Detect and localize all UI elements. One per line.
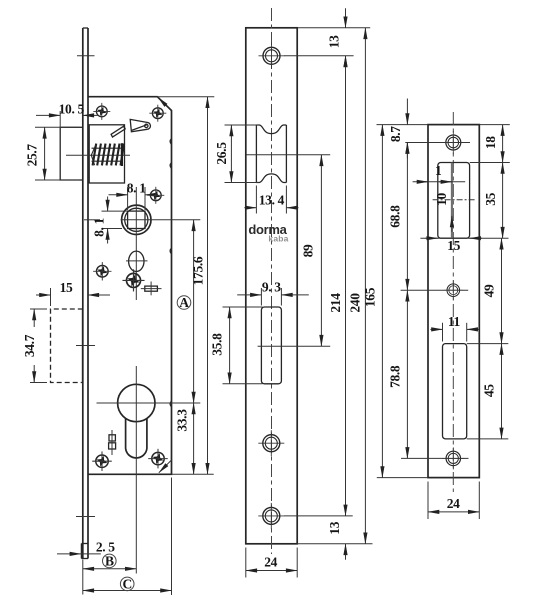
- dim 89: [301, 155, 322, 346]
- svg-text:24: 24: [264, 555, 277, 570]
- dim 11: [430, 314, 478, 341]
- dim 10.5: [36, 102, 98, 131]
- screw hole H2: [258, 430, 284, 456]
- svg-text:175.6: 175.6: [190, 256, 205, 285]
- svg-text:35.8: 35.8: [210, 333, 225, 356]
- svg-text:89: 89: [301, 244, 316, 257]
- latch opening box: [438, 163, 470, 239]
- centre tick marks on faceplate: [76, 56, 95, 517]
- screw S4: [93, 262, 111, 280]
- dim 18: [483, 125, 503, 163]
- bottom edge extension: [172, 473, 214, 475]
- dim 35.8: [210, 307, 263, 384]
- dim 240: [347, 28, 365, 544]
- dim 175.6: [190, 97, 207, 475]
- svg-text:kaba: kaba: [268, 234, 288, 244]
- svg-text:8. 1: 8. 1: [127, 181, 146, 196]
- deadbolt opening box: [443, 344, 467, 439]
- latch bolt wedge: [130, 119, 150, 131]
- screw hole H1: [259, 43, 354, 69]
- dim 2.5: [57, 539, 115, 554]
- dim 33.3: [174, 403, 193, 474]
- screw hole K2: [401, 281, 469, 300]
- dim B (backset): [83, 553, 137, 594]
- dim 8.1 horizontal: [109, 181, 159, 210]
- screw S2: [149, 105, 166, 122]
- dim 165: [362, 125, 428, 478]
- svg-text:26.5: 26.5: [214, 142, 229, 165]
- cylinder slot: [261, 307, 281, 384]
- screw S5: [122, 269, 144, 291]
- spring case: [89, 125, 124, 183]
- dim 24 (strike): [428, 482, 479, 520]
- dim 13 bottom: [327, 521, 346, 559]
- svg-text:C: C: [122, 576, 131, 591]
- screw S1: [93, 103, 110, 120]
- svg-text:165: 165: [362, 287, 377, 307]
- svg-text:18: 18: [483, 136, 498, 149]
- screw hole H3: [258, 503, 352, 529]
- svg-text:1: 1: [435, 163, 442, 178]
- dim 9.3: [237, 280, 309, 306]
- latch opening: [256, 125, 286, 183]
- svg-text:A: A: [179, 295, 189, 310]
- dim 8.1 vertical: [91, 197, 127, 244]
- cylinder centre line: [258, 345, 331, 347]
- svg-text:15: 15: [447, 238, 460, 253]
- svg-text:8. 1: 8. 1: [91, 217, 106, 236]
- dim 78.8: [388, 290, 408, 458]
- svg-text:214: 214: [328, 293, 343, 313]
- oval hole: [126, 251, 148, 271]
- svg-text:B: B: [105, 553, 114, 568]
- top chamfer leader arrow: [158, 97, 166, 105]
- screw S6: [92, 451, 112, 471]
- svg-text:13: 13: [326, 35, 341, 48]
- dim 26.5: [214, 125, 259, 183]
- svg-text:34.7: 34.7: [22, 334, 37, 357]
- centre line: [452, 112, 454, 492]
- svg-text:13. 4: 13. 4: [259, 192, 285, 207]
- dim C (case depth): [83, 478, 172, 596]
- svg-text:11: 11: [448, 314, 461, 329]
- euro cylinder hole: [97, 366, 201, 574]
- dim 45: [482, 344, 502, 439]
- bottom edge extension: [297, 543, 372, 545]
- svg-text:25.7: 25.7: [25, 144, 40, 167]
- latch centre line: [246, 154, 330, 156]
- svg-text:35: 35: [483, 192, 498, 205]
- dim 15 (strike): [420, 238, 508, 253]
- svg-text:10. 5: 10. 5: [59, 102, 85, 117]
- spring axis: [66, 154, 130, 156]
- deadbolt protrusion dashed box: [51, 309, 83, 383]
- screw hole K1: [405, 131, 470, 154]
- right side extensions: [467, 125, 510, 439]
- dormakaba logo: [248, 222, 288, 243]
- follower hub: [84, 187, 200, 300]
- svg-text:2. 5: 2. 5: [96, 539, 115, 554]
- dim 49: [482, 238, 502, 343]
- faceplate front view (middle view): [246, 28, 297, 544]
- dim A (follower to cylinder): [177, 220, 193, 403]
- latch head protrusion (dashed ref box): [60, 127, 83, 180]
- strike lip line: [451, 163, 453, 239]
- svg-text:240: 240: [347, 293, 362, 313]
- svg-text:8.7: 8.7: [388, 126, 403, 142]
- dim 25.7: [25, 127, 80, 180]
- svg-text:13: 13: [327, 521, 342, 534]
- dim 15: [36, 280, 110, 306]
- svg-text:10: 10: [434, 193, 449, 206]
- strike plate (right view): [428, 125, 479, 478]
- screw S3: [147, 187, 164, 204]
- dim 35: [483, 163, 503, 239]
- svg-text:68.8: 68.8: [388, 205, 403, 228]
- adjuster part: [141, 282, 162, 296]
- svg-text:78.8: 78.8: [388, 365, 403, 388]
- top edge extension: [297, 27, 370, 29]
- dim 13.4: [244, 186, 298, 214]
- faceplate side view (left view): [81, 28, 88, 559]
- dim 8.7: [388, 99, 408, 159]
- svg-text:15: 15: [60, 280, 73, 295]
- dim 24 (middle view): [246, 548, 297, 578]
- dim 34.7: [22, 309, 47, 383]
- latch bar: [111, 126, 125, 137]
- centre line: [271, 8, 273, 554]
- screw S7: [148, 449, 168, 469]
- dim 214: [328, 56, 345, 516]
- svg-text:9. 3: 9. 3: [262, 280, 281, 295]
- lip detail dims (1 / 10): [413, 163, 476, 232]
- svg-text:45: 45: [482, 384, 497, 397]
- lock case outline: [88, 97, 214, 475]
- svg-text:33.3: 33.3: [174, 409, 189, 432]
- dim 68.8: [388, 143, 408, 291]
- compression spring: [91, 143, 124, 166]
- cylinder fixing screw: [109, 430, 116, 455]
- right edge notches: [170, 139, 171, 407]
- bottom corner leader arrow: [159, 460, 172, 473]
- svg-text:49: 49: [482, 284, 497, 297]
- svg-text:24: 24: [447, 496, 460, 511]
- dim 13 top: [326, 8, 345, 75]
- screw hole K3: [401, 447, 469, 469]
